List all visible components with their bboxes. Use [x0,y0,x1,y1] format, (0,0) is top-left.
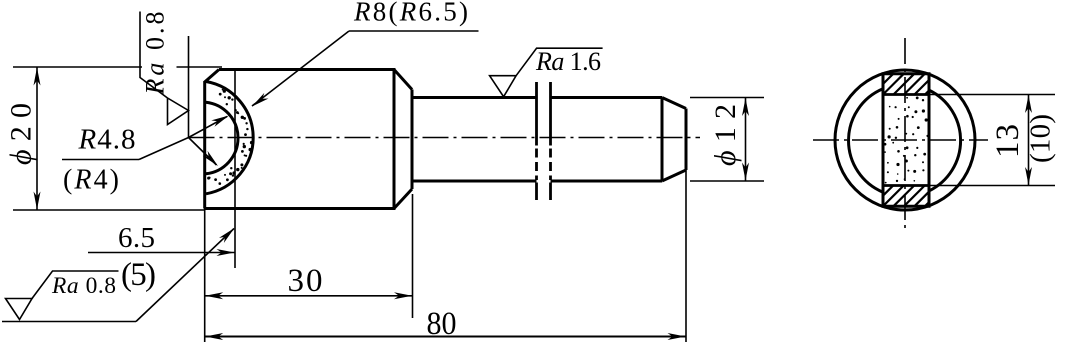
dimension line: 6.5 [88,252,235,254]
arc: outer spherical recess R8 [206,82,253,194]
svg-text:(5): (5) [121,257,156,293]
svg-text:(10): (10) [1025,114,1057,163]
extension line: 13 top [883,94,1055,96]
leader arrow: to inner arc upper [189,117,228,138]
outline: head top-left chamfer [205,70,219,83]
right view: inner recess circle right arc [929,90,961,191]
dimension line: 13 [1028,95,1030,186]
abrasive stipple in spherical recess [207,89,253,185]
arm and bar of bottom Ra 0.8 note [32,271,119,299]
outline: shaft bottom edge right part [551,180,663,183]
abrasive stipple in slot band [884,97,929,184]
label underline: R8(R6.5) [349,30,479,32]
outline: shaft top edge right part [551,96,663,99]
outline: shoulder bottom chamfer [394,189,412,209]
extension line: recess depth reference [234,70,236,268]
extension line: below left face (for 30 and 80) [204,209,206,343]
extension line: phi20 top [13,66,222,68]
outline: head right shoulder edge [393,68,396,210]
svg-text:Ra 1.6: Ra 1.6 [535,47,601,76]
svg-text:(R4): (R4) [63,165,119,196]
right view: slot band right edge [928,74,931,205]
extension line: vertical reference for R4.8 leaders and rotated Ra0.8 [188,36,190,138]
white gap where rotated Ra0.8 text crosses extension line [142,60,177,75]
svg-text:6.5: 6.5 [118,222,155,254]
outline: shaft end bottom chamfer [662,170,686,181]
right view: line at top of stipple band [883,93,929,96]
outline: head cylinder top edge [219,68,394,71]
outline: head bottom edge [205,207,394,210]
leader: R8(R6.5) to outer arc [252,31,349,106]
surface finish symbol: Ra 1.6 on shaft top edge [490,48,603,97]
outline: shaft end chamfer start line [661,98,664,182]
svg-text:Ra 0.8: Ra 0.8 [51,273,116,299]
label fraction bar: R4.8/(R4) [62,159,139,161]
extension line: below shaft end face (for 80) [685,170,687,342]
right view: outer circle phi20 [835,70,975,210]
right view: horizontal centerline [813,139,988,141]
slot left edge on shaft (solid above axis, hidden below) [535,82,538,200]
svg-text:ϕ20: ϕ20 [5,103,38,165]
arc: inner spherical recess R4.8 [206,102,238,174]
slot right edge on shaft (solid above axis, hidden below) [549,82,552,200]
outline: shaft top edge left part [412,96,537,99]
centerline: shaft axis [189,137,701,139]
outline: shaft end top chamfer [662,98,686,109]
dimension line: 80 [205,336,686,338]
leader: R4.8 label to centerline junction [139,138,189,160]
extension line: phi12 top [690,97,764,99]
right view: line at bottom of stipple band [883,184,929,187]
leader arrow: to inner arc lower [189,138,217,166]
leader diagonal: bottom Ra 0.8 note to depth line [136,229,234,322]
svg-text:R8(R6.5): R8(R6.5) [353,0,468,27]
extension line: 13 bottom [883,185,1055,187]
outline: shaft bottom edge left part [412,180,537,183]
right view: slot band left edge [882,74,885,207]
right view: slot top chord [882,72,931,75]
svg-text:R4.8: R4.8 [78,124,136,156]
hatching: top slot region [883,74,929,95]
outline: head left face edge [203,81,206,209]
dimension line: 30 [205,295,413,297]
dimension line: phi12 [745,98,747,182]
leader shelf: bottom Ra 0.8 note [2,321,136,323]
right view: slot bottom chord [882,205,931,208]
svg-text:80: 80 [427,306,457,342]
hatching: bottom slot region [883,186,929,207]
outline: shaft end face [685,109,688,171]
extension line: phi20 bottom [13,209,205,211]
surface finish symbol: Ra 0.8 bottom note [6,299,33,320]
extension line: below shoulder chamfer (for 30) [412,194,414,318]
outline: shoulder chamfer edge line [411,90,414,190]
extension line: phi12 bottom [690,180,764,182]
svg-text:13: 13 [990,124,1026,158]
dimension line: phi20 [36,67,38,210]
svg-text:ϕ12: ϕ12 [709,104,742,166]
surface finish symbol: Ra 0.8 rotated on left extension line [140,12,189,125]
right view: inner recess circle left arc [849,89,883,192]
outline: shoulder top chamfer [394,70,412,90]
right view: vertical centerline [904,38,906,229]
svg-text:Ra 0.8: Ra 0.8 [141,12,170,96]
